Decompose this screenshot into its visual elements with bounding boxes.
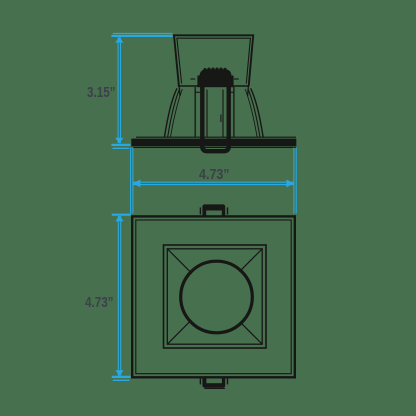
trim recess inner square	[167, 249, 262, 344]
recess diagonals	[167, 249, 262, 344]
trim cone right slant bundle	[251, 88, 264, 137]
housing can inner wall lines	[177, 38, 251, 83]
lens ring	[181, 261, 253, 333]
flange bar	[131, 139, 296, 147]
bottom view outer square	[132, 216, 295, 377]
can step verticals	[178, 86, 181, 96]
bracket steps	[195, 91, 200, 93]
bracket arms	[190, 78, 195, 80]
bottom view inner offset line	[136, 220, 291, 374]
bottom view bottom mounting tab	[200, 377, 229, 388]
dimension 4.73 horizontal	[131, 148, 297, 214]
module inner window lines	[207, 90, 223, 138]
flange top line	[136, 136, 296, 138]
svg-text:3.15”: 3.15”	[87, 84, 116, 101]
bracket rails	[194, 87, 196, 138]
LED module U-body	[202, 87, 228, 151]
dimension 4.73 vertical	[112, 215, 131, 381]
bottom view top mounting tab	[200, 204, 229, 216]
lens disk	[182, 263, 250, 331]
housing can outer trapezoid	[174, 35, 253, 86]
svg-text:4.73”: 4.73”	[199, 166, 230, 183]
module head heatsink	[197, 68, 233, 88]
trim recess outer square	[164, 245, 267, 348]
dimension 3.15	[111, 33, 172, 148]
can bottom edge	[178, 85, 250, 87]
svg-text:4.73”: 4.73”	[85, 294, 114, 311]
trim cone left slant bundle	[164, 88, 177, 137]
flange underline	[133, 147, 296, 149]
